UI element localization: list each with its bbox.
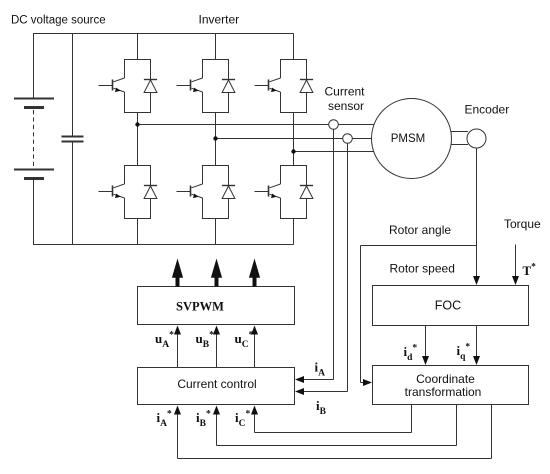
encoder (circle) bbox=[467, 129, 486, 148]
current sensor on phase A (circle) bbox=[329, 120, 339, 130]
label: i_B bbox=[316, 398, 327, 417]
label: Rotor speed bbox=[390, 262, 455, 276]
wire i_A sensor feedback into Current control bbox=[295, 130, 334, 384]
svg-text:Current: Current bbox=[325, 85, 366, 99]
svg-text:Inverter: Inverter bbox=[199, 13, 240, 27]
label: i_d* bbox=[404, 344, 418, 364]
IGBT transistor Q4 (lower, phase A) bbox=[99, 165, 151, 219]
wire encoder output down to FOC bbox=[473, 148, 480, 285]
wire i_A* up into Current control bbox=[174, 406, 181, 459]
battery positive plate (cell 1 long) bbox=[14, 98, 54, 100]
label: Torque bbox=[504, 217, 541, 231]
wire phase A leg midpoint bbox=[137, 113, 139, 166]
wire u_A* Current control to SVPWM bbox=[174, 326, 181, 368]
label: Current sensor bbox=[325, 85, 366, 114]
shaft coupling top line bbox=[451, 131, 468, 133]
wire left rail (battery top lead) bbox=[33, 34, 35, 99]
svg-text:PMSM: PMSM bbox=[391, 133, 426, 145]
wire phase C leg midpoint bbox=[293, 113, 295, 166]
wire phase A leg top terminal bbox=[137, 34, 139, 60]
freewheeling diode of Q5 (lower, phase B) bbox=[222, 165, 235, 219]
block SVPWM bbox=[138, 287, 295, 325]
wire top DC bus rail bbox=[33, 33, 294, 35]
wire i_d* FOC to Coordinate transformation bbox=[422, 326, 429, 366]
wire bottom DC bus rail bbox=[33, 244, 294, 246]
wire rotor angle branch horizontal bbox=[361, 245, 477, 247]
label: DC voltage source bbox=[11, 15, 106, 27]
label: i_B* bbox=[196, 410, 211, 430]
label: i_q* bbox=[457, 343, 471, 363]
IGBT transistor Q6 (lower, phase C) bbox=[255, 165, 307, 219]
battery negative plate (cell 2 short) bbox=[24, 177, 44, 180]
freewheeling diode of Q6 (lower, phase C) bbox=[300, 165, 313, 219]
wire phase B output to PMSM bbox=[216, 138, 372, 140]
svg-text:Torque: Torque bbox=[504, 217, 541, 231]
wire rotor angle into Coordinate transformation bbox=[361, 379, 373, 386]
wire torque reference T* into FOC bbox=[512, 245, 519, 286]
wire i_B* bottom routing horizontal bbox=[217, 445, 457, 447]
current sensor on phase B (circle) bbox=[343, 134, 353, 144]
label: Coordinate transformation bbox=[405, 372, 482, 399]
node phase A junction bbox=[135, 122, 139, 126]
label: u_B* bbox=[196, 331, 215, 351]
svg-text:Encoder: Encoder bbox=[465, 103, 510, 117]
svg-text:DC voltage source: DC voltage source bbox=[11, 15, 106, 27]
wire i_C* Coordinate transformation output down bbox=[411, 405, 413, 433]
svg-text:Current control: Current control bbox=[177, 377, 256, 391]
freewheeling diode of Q3 (upper, phase C) bbox=[300, 59, 313, 113]
label: u_C* bbox=[235, 331, 254, 351]
wire capacitor bottom lead bbox=[72, 142, 74, 245]
wire rotor angle branch vertical bbox=[360, 246, 362, 383]
label: Rotor angle bbox=[389, 223, 451, 237]
thick gate signal arrow at x=177.5 bbox=[172, 259, 183, 287]
wire phase B leg bottom terminal bbox=[215, 219, 217, 245]
node phase B junction bbox=[213, 136, 217, 140]
svg-text:FOC: FOC bbox=[435, 299, 461, 313]
label: FOC bbox=[435, 299, 461, 313]
wire u_C* Current control to SVPWM bbox=[251, 326, 258, 368]
wire i_A* Coordinate transformation output down bbox=[491, 405, 493, 459]
block Coordinate transformation bbox=[373, 366, 529, 405]
freewheeling diode of Q2 (upper, phase B) bbox=[222, 59, 235, 113]
wire i_B sensor feedback into Current control bbox=[295, 144, 348, 396]
IGBT transistor Q5 (lower, phase B) bbox=[177, 165, 229, 219]
label: Encoder bbox=[465, 103, 510, 117]
label: i_A bbox=[315, 360, 326, 379]
wire phase C leg top terminal bbox=[293, 34, 295, 60]
capacitor C plate top bbox=[62, 136, 84, 138]
svg-text:Rotor angle: Rotor angle bbox=[389, 223, 451, 237]
IGBT transistor Q2 (upper, phase B) bbox=[177, 59, 229, 113]
node phase C junction bbox=[291, 149, 295, 153]
thick gate signal arrow at x=254.5 bbox=[249, 259, 260, 287]
wire phase C output to PMSM bbox=[294, 151, 374, 153]
IGBT transistor Q3 (upper, phase C) bbox=[255, 59, 307, 113]
battery positive plate (cell 2 long) bbox=[14, 169, 54, 171]
label: Inverter bbox=[199, 13, 240, 27]
PMSM motor (circle) bbox=[372, 99, 452, 179]
label: Current control bbox=[177, 377, 256, 391]
label: SVPWM bbox=[176, 300, 224, 314]
label: i_C* bbox=[235, 410, 251, 430]
wire phase B leg midpoint bbox=[215, 113, 217, 166]
freewheeling diode of Q1 (upper, phase A) bbox=[144, 59, 157, 113]
svg-text:SVPWM: SVPWM bbox=[176, 300, 224, 314]
svg-text:Coordinate: Coordinate bbox=[416, 372, 475, 386]
wire capacitor top lead bbox=[72, 34, 74, 137]
block FOC bbox=[373, 286, 529, 326]
label: PMSM bbox=[391, 133, 426, 145]
wire i_B* Coordinate transformation output down bbox=[456, 405, 458, 446]
battery negative plate (cell 1 short) bbox=[24, 106, 44, 109]
wire i_q* FOC to Coordinate transformation bbox=[473, 326, 480, 366]
wire i_C* bottom routing horizontal bbox=[255, 432, 412, 434]
shaft coupling bottom line bbox=[451, 144, 468, 146]
label: i_A* bbox=[157, 410, 173, 430]
block Current control bbox=[138, 368, 295, 405]
wire i_B* up into Current control bbox=[213, 406, 220, 446]
label: T* bbox=[523, 263, 537, 279]
battery intermediate cells (dashed wire) bbox=[33, 110, 35, 168]
wire left rail (battery bottom lead) bbox=[33, 180, 35, 245]
svg-text:Rotor speed: Rotor speed bbox=[390, 262, 455, 276]
label: u_A* bbox=[155, 331, 174, 351]
thick gate signal arrow at x=216.5 bbox=[211, 259, 222, 287]
wire i_C* up into Current control bbox=[251, 406, 258, 433]
wire phase B leg top terminal bbox=[215, 34, 217, 60]
svg-text:sensor: sensor bbox=[328, 99, 364, 113]
wire i_A* bottom routing horizontal bbox=[178, 458, 492, 460]
svg-text:transformation: transformation bbox=[405, 385, 482, 399]
wire phase C leg bottom terminal bbox=[293, 219, 295, 245]
wire u_B* Current control to SVPWM bbox=[213, 326, 220, 368]
wire phase A leg bottom terminal bbox=[137, 219, 139, 245]
wire phase A output to PMSM bbox=[138, 124, 374, 126]
freewheeling diode of Q4 (lower, phase A) bbox=[144, 165, 157, 219]
capacitor C plate bottom bbox=[62, 141, 84, 143]
IGBT transistor Q1 (upper, phase A) bbox=[99, 59, 151, 113]
